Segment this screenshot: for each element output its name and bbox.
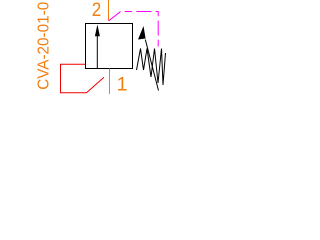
port 2 line	[108, 0, 110, 21]
port 1 line	[109, 69, 111, 95]
flow arrow head	[95, 25, 100, 37]
valve body box	[86, 24, 133, 69]
adjustment arrow shaft	[145, 40, 158, 91]
svg-text:1: 1	[117, 73, 128, 95]
svg-text:CVA-20-01-0: CVA-20-01-0	[36, 2, 53, 90]
pilot line (dashed)	[109, 12, 159, 47]
flow arrow shaft	[96, 35, 98, 68]
adjustment arrow head	[138, 26, 146, 40]
spring	[137, 49, 166, 86]
svg-text:2: 2	[92, 0, 102, 21]
label CVA-20-01-0	[36, 2, 53, 90]
drain line	[61, 64, 105, 93]
